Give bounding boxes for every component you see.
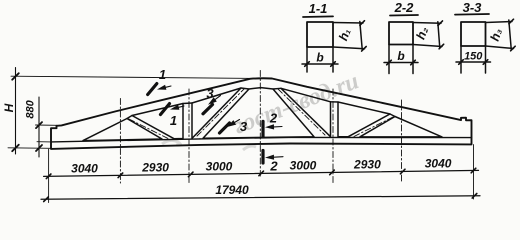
svg-text:1: 1 xyxy=(159,67,166,82)
svg-text:150: 150 xyxy=(464,51,483,63)
svg-text:3040: 3040 xyxy=(71,161,98,175)
svg-text:3000: 3000 xyxy=(290,158,317,172)
svg-text:2: 2 xyxy=(269,111,278,126)
svg-text:1: 1 xyxy=(170,113,177,128)
svg-text:1-1: 1-1 xyxy=(309,1,328,16)
svg-text:3: 3 xyxy=(240,119,248,134)
svg-text:17940: 17940 xyxy=(215,183,249,197)
svg-text:3-3: 3-3 xyxy=(463,0,483,15)
svg-text:3: 3 xyxy=(206,86,214,101)
svg-text:2930: 2930 xyxy=(141,160,169,174)
svg-text:2-2: 2-2 xyxy=(394,0,415,15)
svg-text:3040: 3040 xyxy=(425,157,452,171)
svg-text:b: b xyxy=(397,49,404,63)
svg-text:2930: 2930 xyxy=(353,158,381,172)
svg-text:H: H xyxy=(2,103,16,112)
svg-text:2: 2 xyxy=(269,159,278,174)
svg-text:b: b xyxy=(316,51,323,65)
svg-text:3000: 3000 xyxy=(206,160,233,174)
svg-text:880: 880 xyxy=(25,99,37,118)
